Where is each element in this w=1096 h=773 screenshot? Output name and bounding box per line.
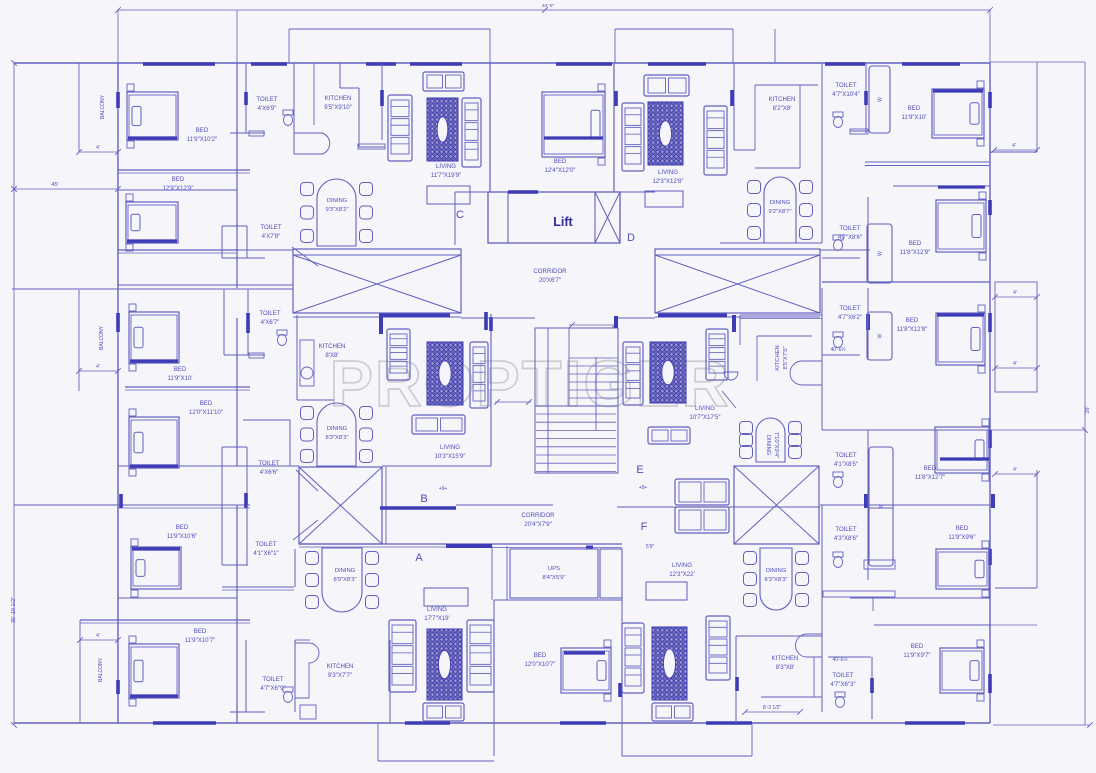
wc rt4 xyxy=(833,472,843,488)
kitchen bottom-left xyxy=(294,640,296,712)
svg-text:TOILET: TOILET xyxy=(835,82,856,89)
svg-text:BALCONY: BALCONY xyxy=(99,325,105,350)
staircase X mid-left xyxy=(299,467,382,544)
wall y625 right wing xyxy=(874,624,990,626)
svg-text:4': 4' xyxy=(1013,290,1017,296)
svg-text:4′X6′7″: 4′X6′7″ xyxy=(261,319,281,326)
tv unit TR xyxy=(645,191,683,207)
svg-text:TOILET: TOILET xyxy=(260,224,281,231)
svg-text:C: C xyxy=(456,209,464,221)
svg-text:W: W xyxy=(878,97,884,102)
svg-text:12′0″X11′10″: 12′0″X11′10″ xyxy=(189,409,224,416)
bed B4 xyxy=(129,409,179,476)
svg-text:4′7″X6″3″: 4′7″X6″3″ xyxy=(830,681,856,688)
lift lobby walls xyxy=(455,191,488,193)
sofa TL left xyxy=(388,95,412,161)
wall y430 right wing xyxy=(822,429,990,431)
svg-text:KITCHEN: KITCHEN xyxy=(327,663,354,670)
svg-text:DINING: DINING xyxy=(770,200,791,206)
staircase big left xyxy=(293,249,461,317)
svg-text:4': 4' xyxy=(1012,143,1016,149)
svg-text:8′9″X8′3″: 8′9″X8′3″ xyxy=(333,577,356,583)
svg-text:CORRIDOR: CORRIDOR xyxy=(521,512,555,519)
wall below bed2 room xyxy=(118,249,237,251)
svg-text:8′4″X5′9″: 8′4″X5′9″ xyxy=(542,575,565,581)
corridor lower wall right xyxy=(446,543,622,545)
sofa BL right xyxy=(467,620,494,692)
wc rt5 xyxy=(833,552,843,568)
svg-text:BED: BED xyxy=(908,105,921,112)
sofa ML left xyxy=(387,329,410,380)
svg-text:11′9″X10′6″: 11′9″X10′6″ xyxy=(167,533,198,540)
svg-text:E: E xyxy=(636,464,643,476)
wall y466 left xyxy=(118,465,299,467)
svg-text:BED: BED xyxy=(906,317,919,324)
svg-text:KITCHEN: KITCHEN xyxy=(772,655,799,662)
bed R1 xyxy=(932,81,984,146)
svg-text:BED: BED xyxy=(911,643,924,650)
dining BL xyxy=(306,548,379,612)
balcony bottom-right dim xyxy=(995,587,1037,589)
wall below bed3 room xyxy=(125,386,250,388)
svg-text:KITCHEN: KITCHEN xyxy=(325,95,352,102)
dining TL xyxy=(301,179,373,246)
svg-text:BED: BED xyxy=(924,465,937,472)
bed B3 xyxy=(129,304,179,371)
svg-text:12′3″X12′8″: 12′3″X12′8″ xyxy=(653,178,685,185)
central staircase xyxy=(535,316,618,473)
wall x822 partition TR xyxy=(821,63,823,243)
svg-text:D: D xyxy=(627,232,635,244)
shaft R1 xyxy=(869,66,890,133)
door diagonal t2 xyxy=(292,247,318,266)
svg-text:BALCONY: BALCONY xyxy=(98,657,104,682)
wall top of bed2 xyxy=(118,189,237,191)
wall x614 partition xyxy=(613,63,615,192)
toilet 1 walls xyxy=(245,63,247,133)
kitchen counter rounded xyxy=(294,133,330,154)
svg-text:DINING: DINING xyxy=(327,198,348,204)
bed B2 xyxy=(126,194,178,251)
kitchen top-left walls xyxy=(293,63,295,133)
svg-text:KITCHEN: KITCHEN xyxy=(769,96,796,103)
exterior bottom wall xyxy=(14,722,990,724)
svg-text:17′7″X19′: 17′7″X19′ xyxy=(424,615,450,622)
loveseat ML xyxy=(412,415,465,434)
PROPTIGER watermark xyxy=(330,347,731,420)
svg-text:KITCHEN: KITCHEN xyxy=(775,345,781,370)
svg-text:8′-3 1/2″: 8′-3 1/2″ xyxy=(763,705,782,711)
rug BL living xyxy=(427,629,462,700)
left 45ft dim xyxy=(14,188,118,190)
windows bottom wall xyxy=(153,721,216,725)
right outer dimension line xyxy=(1084,62,1086,725)
bed R3 xyxy=(936,305,985,373)
bed bottom-center xyxy=(561,640,611,701)
dining TR xyxy=(748,177,813,243)
dining ML xyxy=(301,403,373,466)
svg-text:BED: BED xyxy=(194,628,207,635)
wall below top-left bedroom xyxy=(118,169,250,171)
loveseat TL xyxy=(423,72,464,91)
svg-text:A: A xyxy=(415,552,423,564)
svg-text:20′4″X7′9″: 20′4″X7′9″ xyxy=(524,521,552,528)
svg-text:TOILET: TOILET xyxy=(256,96,277,103)
tv unit BR xyxy=(646,582,687,600)
svg-text:+9+: +9+ xyxy=(639,485,648,491)
tv unit TL xyxy=(427,186,470,204)
wall x622 xyxy=(621,549,623,756)
sofa TR left xyxy=(622,103,644,171)
svg-text:34'-0″: 34'-0″ xyxy=(542,3,555,9)
bottom right dim xyxy=(993,724,1090,726)
svg-text:TOILET: TOILET xyxy=(255,541,276,548)
svg-text:8′5″X7′5″: 8′5″X7′5″ xyxy=(783,346,789,369)
shaft R4 xyxy=(869,447,893,566)
toilet 2 walls xyxy=(221,226,223,258)
dim 8-3.5 xyxy=(745,711,800,713)
bed center-top xyxy=(542,84,605,165)
svg-text:11′7″X19′9″: 11′7″X19′9″ xyxy=(431,172,462,179)
staircase big right xyxy=(655,249,820,317)
sofa F top xyxy=(675,479,729,505)
kitchen TR room xyxy=(755,84,818,86)
svg-text:DINING: DINING xyxy=(766,568,787,574)
svg-text:4′7″X10′4″: 4′7″X10′4″ xyxy=(832,91,860,98)
lift box xyxy=(488,192,620,243)
rug TL living xyxy=(427,98,458,161)
svg-text:W: W xyxy=(878,333,884,338)
svg-text:TOILET: TOILET xyxy=(258,460,279,467)
svg-text:4': 4' xyxy=(1013,467,1017,473)
counter MR rounded xyxy=(790,361,822,385)
svg-text:B: B xyxy=(420,493,427,505)
sofa ML right xyxy=(470,342,488,408)
rug BR living xyxy=(652,627,687,700)
wall below bed4 room y505 xyxy=(14,504,250,506)
bed B6 bottom-left xyxy=(129,636,179,706)
svg-text:12′0″X10′7″: 12′0″X10′7″ xyxy=(525,661,557,668)
windows top wall xyxy=(143,62,215,66)
loveseat BR xyxy=(652,703,693,721)
balcony bump bottom-left xyxy=(377,723,379,761)
wall x490 partition xyxy=(489,63,491,192)
svg-text:BED: BED xyxy=(172,176,185,183)
basin MR xyxy=(724,372,738,380)
svg-text:11′8″X12′8″: 11′8″X12′8″ xyxy=(897,326,928,333)
sofa F bottom xyxy=(675,507,729,533)
balcony mid-right xyxy=(995,282,1037,392)
balcony top-right xyxy=(1036,62,1038,152)
wall y186 right wing xyxy=(893,185,990,187)
svg-text:9′3″X7′7″: 9′3″X7′7″ xyxy=(328,672,353,679)
balcony bump bottom-right xyxy=(622,755,752,757)
kitchen top-right walls xyxy=(733,63,735,150)
bed R5 xyxy=(936,541,989,597)
svg-text:4′3″X8′6″: 4′3″X8′6″ xyxy=(834,535,859,542)
wall below bed5 room xyxy=(118,597,237,599)
rug ML living xyxy=(427,342,463,405)
svg-text:TOILET: TOILET xyxy=(832,672,853,679)
svg-text:12′4″X12′0″: 12′4″X12′0″ xyxy=(545,167,577,174)
wc rt3 xyxy=(833,332,843,348)
balcony top-left xyxy=(78,63,80,152)
svg-text:11′8″X12′9″: 11′8″X12′9″ xyxy=(900,249,931,256)
sofa TL right xyxy=(462,98,481,167)
svg-text:4′X7′8″: 4′X7′8″ xyxy=(262,233,282,240)
svg-text:LIVING: LIVING xyxy=(658,169,678,176)
kitchen MR inner walls xyxy=(757,335,812,337)
kitchen bottom-right xyxy=(735,636,737,723)
svg-text:BED: BED xyxy=(909,240,922,247)
svg-text:12′9″X12′9″: 12′9″X12′9″ xyxy=(163,185,195,192)
svg-text:LIVING: LIVING xyxy=(695,405,715,412)
wall x382 top apartment partition xyxy=(381,63,383,140)
wall y598 center-right xyxy=(850,597,990,599)
toilet 4a walls xyxy=(243,419,290,421)
windows right wall xyxy=(988,92,992,108)
svg-text:11′9″X10′: 11′9″X10′ xyxy=(902,114,928,121)
top dimension line xyxy=(118,9,990,11)
kitchen right counter xyxy=(339,63,341,88)
door diagonal xyxy=(296,470,318,491)
svg-text:4': 4' xyxy=(1013,361,1017,367)
svg-text:11′9″X10′: 11′9″X10′ xyxy=(168,375,194,382)
svg-text:LIVING: LIVING xyxy=(436,163,456,170)
bed B1 top-left xyxy=(127,84,178,148)
rug MR living xyxy=(650,342,686,403)
svg-text:TOILET: TOILET xyxy=(259,310,280,317)
svg-text:4′7″X6′2″: 4′7″X6′2″ xyxy=(838,314,863,321)
exterior left wall xyxy=(117,63,119,723)
svg-text:9′5″X9′10″: 9′5″X9′10″ xyxy=(324,104,352,111)
kitchen mid-right xyxy=(740,314,822,316)
door diagonal t4b xyxy=(293,520,318,540)
svg-text:+9+: +9+ xyxy=(439,486,448,492)
bed R6 xyxy=(940,640,984,701)
wall x491 partition xyxy=(490,314,492,466)
top parapet bump left xyxy=(289,28,490,30)
toilet 3 walls xyxy=(223,289,225,355)
wardrobe ledge y163 right wing xyxy=(865,161,989,163)
bed R4 xyxy=(935,419,989,481)
svg-text:BED: BED xyxy=(196,127,209,134)
svg-text:10′3″X15′9″: 10′3″X15′9″ xyxy=(435,453,467,460)
svg-text:11′9″X10′2″: 11′9″X10′2″ xyxy=(187,136,218,143)
shaft R3 xyxy=(867,312,892,360)
svg-text:BED: BED xyxy=(176,524,189,531)
svg-text:11′8″X12′7″: 11′8″X12′7″ xyxy=(915,474,946,481)
svg-text:DINING: DINING xyxy=(765,435,771,456)
svg-text:7′10″X9′4″: 7′10″X9′4″ xyxy=(773,432,779,458)
svg-text:LIVING: LIVING xyxy=(427,606,447,613)
dining BR xyxy=(744,548,809,610)
kitchen mid-left xyxy=(296,315,298,400)
svg-text:TOILET: TOILET xyxy=(262,676,283,683)
toilet R2 xyxy=(867,197,869,282)
svg-text:4': 4' xyxy=(96,145,100,151)
wall y282 right xyxy=(822,281,990,283)
toilet R3 xyxy=(867,288,869,360)
svg-text:BED: BED xyxy=(534,652,547,659)
sofa BR left xyxy=(622,623,644,693)
svg-text:4′X6′6″: 4′X6′6″ xyxy=(260,469,280,476)
windows left wall xyxy=(116,92,120,108)
svg-text:BED: BED xyxy=(554,158,567,165)
svg-text:4′1″X8′5″: 4′1″X8′5″ xyxy=(834,461,859,468)
toilet R6 xyxy=(871,657,873,719)
balcony bottom-left xyxy=(79,620,81,723)
svg-text:DINING: DINING xyxy=(327,426,348,432)
left outer dimension line xyxy=(13,63,15,725)
svg-text:8′3″X8′3″: 8′3″X8′3″ xyxy=(764,577,787,583)
svg-text:Lift: Lift xyxy=(553,215,573,229)
long wall y285 xyxy=(118,284,293,286)
svg-text:20′X6′7″: 20′X6′7″ xyxy=(539,277,562,284)
sofa BL left xyxy=(389,620,416,692)
svg-text:39': 39' xyxy=(1085,406,1091,413)
svg-text:11′9″X9′7″: 11′9″X9′7″ xyxy=(903,652,931,659)
svg-text:BED: BED xyxy=(200,400,213,407)
svg-text:5′9″: 5′9″ xyxy=(646,544,654,550)
loveseat MR xyxy=(648,427,690,444)
svg-text:45': 45' xyxy=(51,182,58,188)
wall y620 double xyxy=(80,619,250,621)
wc rt1 xyxy=(833,112,843,128)
svg-text:KITCHEN: KITCHEN xyxy=(319,343,346,350)
sofa MR left xyxy=(623,342,643,405)
svg-text:LIVING: LIVING xyxy=(440,444,460,451)
loveseat TR xyxy=(644,75,689,96)
svg-text:BALCONY: BALCONY xyxy=(100,94,106,119)
corridor walls mid xyxy=(380,506,456,510)
balcony mid-left xyxy=(78,290,80,391)
rug TR living xyxy=(648,102,683,165)
exterior right wall xyxy=(989,63,991,723)
svg-text:UPS: UPS xyxy=(548,566,560,572)
dining MR xyxy=(740,418,802,462)
counter mid-left kitchen xyxy=(300,340,314,386)
long wall y289 xyxy=(12,288,293,290)
svg-text:CORRIDOR: CORRIDOR xyxy=(533,268,567,275)
wc rt2 xyxy=(833,235,843,251)
svg-text:TOILET: TOILET xyxy=(839,305,860,312)
wall x237 spine left xyxy=(236,63,238,288)
svg-text:9′2″X8′7″: 9′2″X8′7″ xyxy=(768,209,791,215)
toilet R4/R5 xyxy=(867,430,869,580)
wc t1 xyxy=(283,110,293,126)
toilet 4b walls xyxy=(221,505,223,565)
svg-text:DINING: DINING xyxy=(335,568,356,574)
svg-text:TOILET: TOILET xyxy=(839,225,860,232)
tv unit BL xyxy=(424,588,468,606)
exterior top wall xyxy=(14,62,990,64)
wc t3 xyxy=(277,330,287,346)
svg-text:35'-10 1/2": 35'-10 1/2" xyxy=(11,597,17,623)
staircase X mid-right xyxy=(734,466,819,544)
svg-text:BED: BED xyxy=(174,366,187,373)
top parapet bump right xyxy=(615,28,733,30)
svg-text:12′3″X22′: 12′3″X22′ xyxy=(669,571,695,578)
svg-text:TOILET: TOILET xyxy=(835,526,856,533)
sofa TR right xyxy=(704,106,727,175)
svg-text:4′1″X6″1″: 4′1″X6″1″ xyxy=(253,550,279,557)
svg-text:TOILET: TOILET xyxy=(835,452,856,459)
loveseat BL xyxy=(423,703,464,721)
sofa BR right xyxy=(706,616,730,680)
lift X xyxy=(595,192,620,243)
toilet R1 walls xyxy=(865,63,867,133)
svg-text:8′3″X8′: 8′3″X8′ xyxy=(776,664,796,671)
svg-text:4′7″X6″9″: 4′7″X6″9″ xyxy=(260,685,286,692)
svg-text:11′9″X10′7″: 11′9″X10′7″ xyxy=(185,637,216,644)
svg-text:11′9″X9′6″: 11′9″X9′6″ xyxy=(948,534,976,541)
wc rt6 xyxy=(835,692,845,708)
svg-text:4': 4' xyxy=(96,364,100,370)
wall x494 bottom center xyxy=(493,600,495,756)
wc t5 xyxy=(283,687,293,703)
toilet 5 walls xyxy=(245,640,247,712)
svg-text:W: W xyxy=(878,251,884,256)
svg-text:8′2″X8′: 8′2″X8′ xyxy=(773,105,793,112)
shaft R2 xyxy=(867,224,892,283)
svg-text:BED: BED xyxy=(956,525,969,532)
bed R2 xyxy=(936,192,986,260)
svg-text:10′7″X17′5″: 10′7″X17′5″ xyxy=(690,414,722,421)
svg-text:F: F xyxy=(641,521,648,533)
door diagonal MR xyxy=(722,391,736,408)
svg-text:4′X6′9″: 4′X6′9″ xyxy=(258,105,278,112)
corridor lower wall xyxy=(299,543,448,545)
svg-text:4': 4' xyxy=(96,633,100,639)
svg-text:LIVING: LIVING xyxy=(672,562,692,569)
sofa MR right xyxy=(706,329,728,380)
ups room xyxy=(510,549,598,598)
svg-text:8′X8′: 8′X8′ xyxy=(325,352,339,359)
svg-text:9′3″X8′2″: 9′3″X8′2″ xyxy=(325,207,348,213)
svg-text:8′3″X8′3″: 8′3″X8′3″ xyxy=(325,435,348,441)
bed B5 xyxy=(131,539,181,597)
